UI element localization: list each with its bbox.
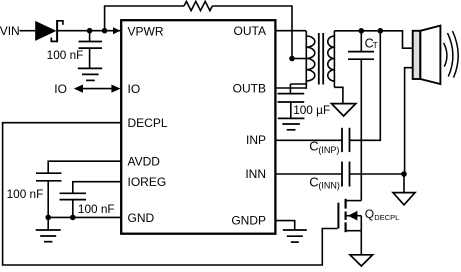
wire INN to speaker return bbox=[350, 173, 404, 175]
svg-text:AVDD: AVDD bbox=[128, 155, 161, 169]
wire diode to VPWR bbox=[58, 30, 120, 32]
svg-text:GNDP: GNDP bbox=[231, 213, 266, 227]
svg-text:100 nF: 100 nF bbox=[7, 187, 44, 201]
diode D1 Schottky bbox=[35, 20, 63, 42]
svg-text:OUTA: OUTA bbox=[234, 24, 266, 38]
svg-text:(INP): (INP) bbox=[318, 145, 339, 155]
wire AVDD cap to GND rail bbox=[47, 181, 49, 217]
wire DECPL loop to MOSFET gate bbox=[3, 123, 338, 265]
wire VIN to diode bbox=[20, 30, 36, 32]
wire GND bbox=[48, 216, 121, 218]
wire primary bottom jog bbox=[290, 83, 306, 85]
node dot at CT bbox=[359, 28, 365, 34]
svg-text:OUTB: OUTB bbox=[233, 81, 266, 95]
wire OUTB bbox=[277, 87, 307, 89]
wire INN bbox=[277, 173, 342, 175]
wire OUTA to primary bbox=[277, 30, 307, 32]
ground below VPWR cap bbox=[78, 68, 102, 80]
capacitor 100nF at IOREG bbox=[60, 193, 87, 199]
svg-text:GND: GND bbox=[128, 211, 155, 225]
wire CT bottom to MOSFET drain bbox=[360, 59, 362, 200]
capacitor C(INN) bbox=[342, 162, 350, 187]
svg-text:INN: INN bbox=[245, 167, 266, 181]
wire IOREG bbox=[73, 182, 121, 193]
capacitor 100uF bbox=[278, 94, 305, 119]
IC U1 box bbox=[121, 20, 275, 234]
svg-text:VIN: VIN bbox=[0, 24, 20, 38]
wire feedback riser bbox=[350, 31, 380, 141]
wire riser node to top rail bbox=[104, 6, 106, 31]
speaker LS1 bbox=[413, 26, 441, 84]
node dot at 100nF tap bbox=[87, 28, 93, 34]
wire top rail right of resistor with drop to center tap bbox=[212, 6, 292, 59]
VPWR pin arrowhead bbox=[113, 27, 120, 34]
ground triangle below secondary bbox=[332, 104, 356, 116]
svg-text:INP: INP bbox=[246, 133, 266, 147]
node dot GND rail at IOREG cap bbox=[70, 215, 76, 221]
wire OUTB to 100uF cap bbox=[289, 84, 291, 93]
MOSFET Q_DECPL bbox=[338, 199, 361, 232]
wire INN node to ground triangle bbox=[403, 174, 405, 193]
ground triangle below MOSFET bbox=[350, 255, 373, 266]
wire GND rail to ground bbox=[47, 217, 49, 229]
svg-text:Q: Q bbox=[365, 207, 374, 221]
svg-text:(INN): (INN) bbox=[318, 181, 340, 191]
resistor R bbox=[184, 1, 212, 10]
node dot at riser bbox=[102, 28, 108, 34]
svg-text:DECPL: DECPL bbox=[128, 116, 168, 130]
wire INP bbox=[277, 139, 342, 141]
ground at GNDP bbox=[283, 230, 307, 242]
wire IOREG cap to GND rail bbox=[72, 200, 74, 218]
node dot GND rail at AVDD cap bbox=[45, 215, 51, 221]
node dot at transformer center tap bbox=[289, 56, 295, 62]
svg-text:IO: IO bbox=[54, 82, 67, 96]
svg-text:IOREG: IOREG bbox=[128, 175, 167, 189]
wire secondary bottom jog to ground bbox=[334, 87, 343, 103]
capacitor C(INP) bbox=[342, 128, 350, 152]
wire primary stem bottom bbox=[305, 84, 307, 89]
svg-text:IO: IO bbox=[128, 82, 141, 96]
wire secondary top to speaker bbox=[334, 31, 412, 48]
svg-text:100 nF: 100 nF bbox=[78, 202, 115, 216]
svg-text:DECPL: DECPL bbox=[374, 213, 399, 222]
IO double-headed arrow bbox=[74, 85, 121, 93]
transformer T1 secondary winding bbox=[328, 31, 335, 88]
transformer T1 primary winding bbox=[306, 31, 315, 84]
speaker sound waves bbox=[444, 31, 459, 78]
svg-text:100 nF: 100 nF bbox=[47, 48, 84, 62]
svg-text:T: T bbox=[373, 41, 378, 50]
transformer T1 core bbox=[319, 33, 323, 85]
capacitor CT bbox=[348, 31, 374, 59]
svg-text:C: C bbox=[309, 139, 318, 154]
wire AVDD bbox=[48, 161, 121, 173]
wire top rail left of resistor bbox=[104, 5, 184, 7]
svg-text:100 µF: 100 µF bbox=[293, 103, 330, 117]
node dot at feedback riser bbox=[378, 28, 384, 34]
node dot speaker return bbox=[401, 171, 407, 177]
capacitor 100nF at VPWR bbox=[79, 31, 103, 68]
wire GNDP to ground bbox=[277, 221, 295, 230]
ground below 100uF cap bbox=[278, 118, 305, 129]
capacitor 100nF at AVDD bbox=[36, 173, 62, 181]
svg-text:VPWR: VPWR bbox=[128, 24, 164, 38]
wire MOSFET source to ground bbox=[360, 231, 362, 255]
wire speaker return riser bbox=[405, 68, 413, 174]
wire center tap to primary bbox=[292, 58, 306, 60]
svg-text:C: C bbox=[309, 174, 318, 189]
ground triangle at INN node bbox=[393, 193, 415, 205]
ground below GND bbox=[36, 230, 61, 242]
